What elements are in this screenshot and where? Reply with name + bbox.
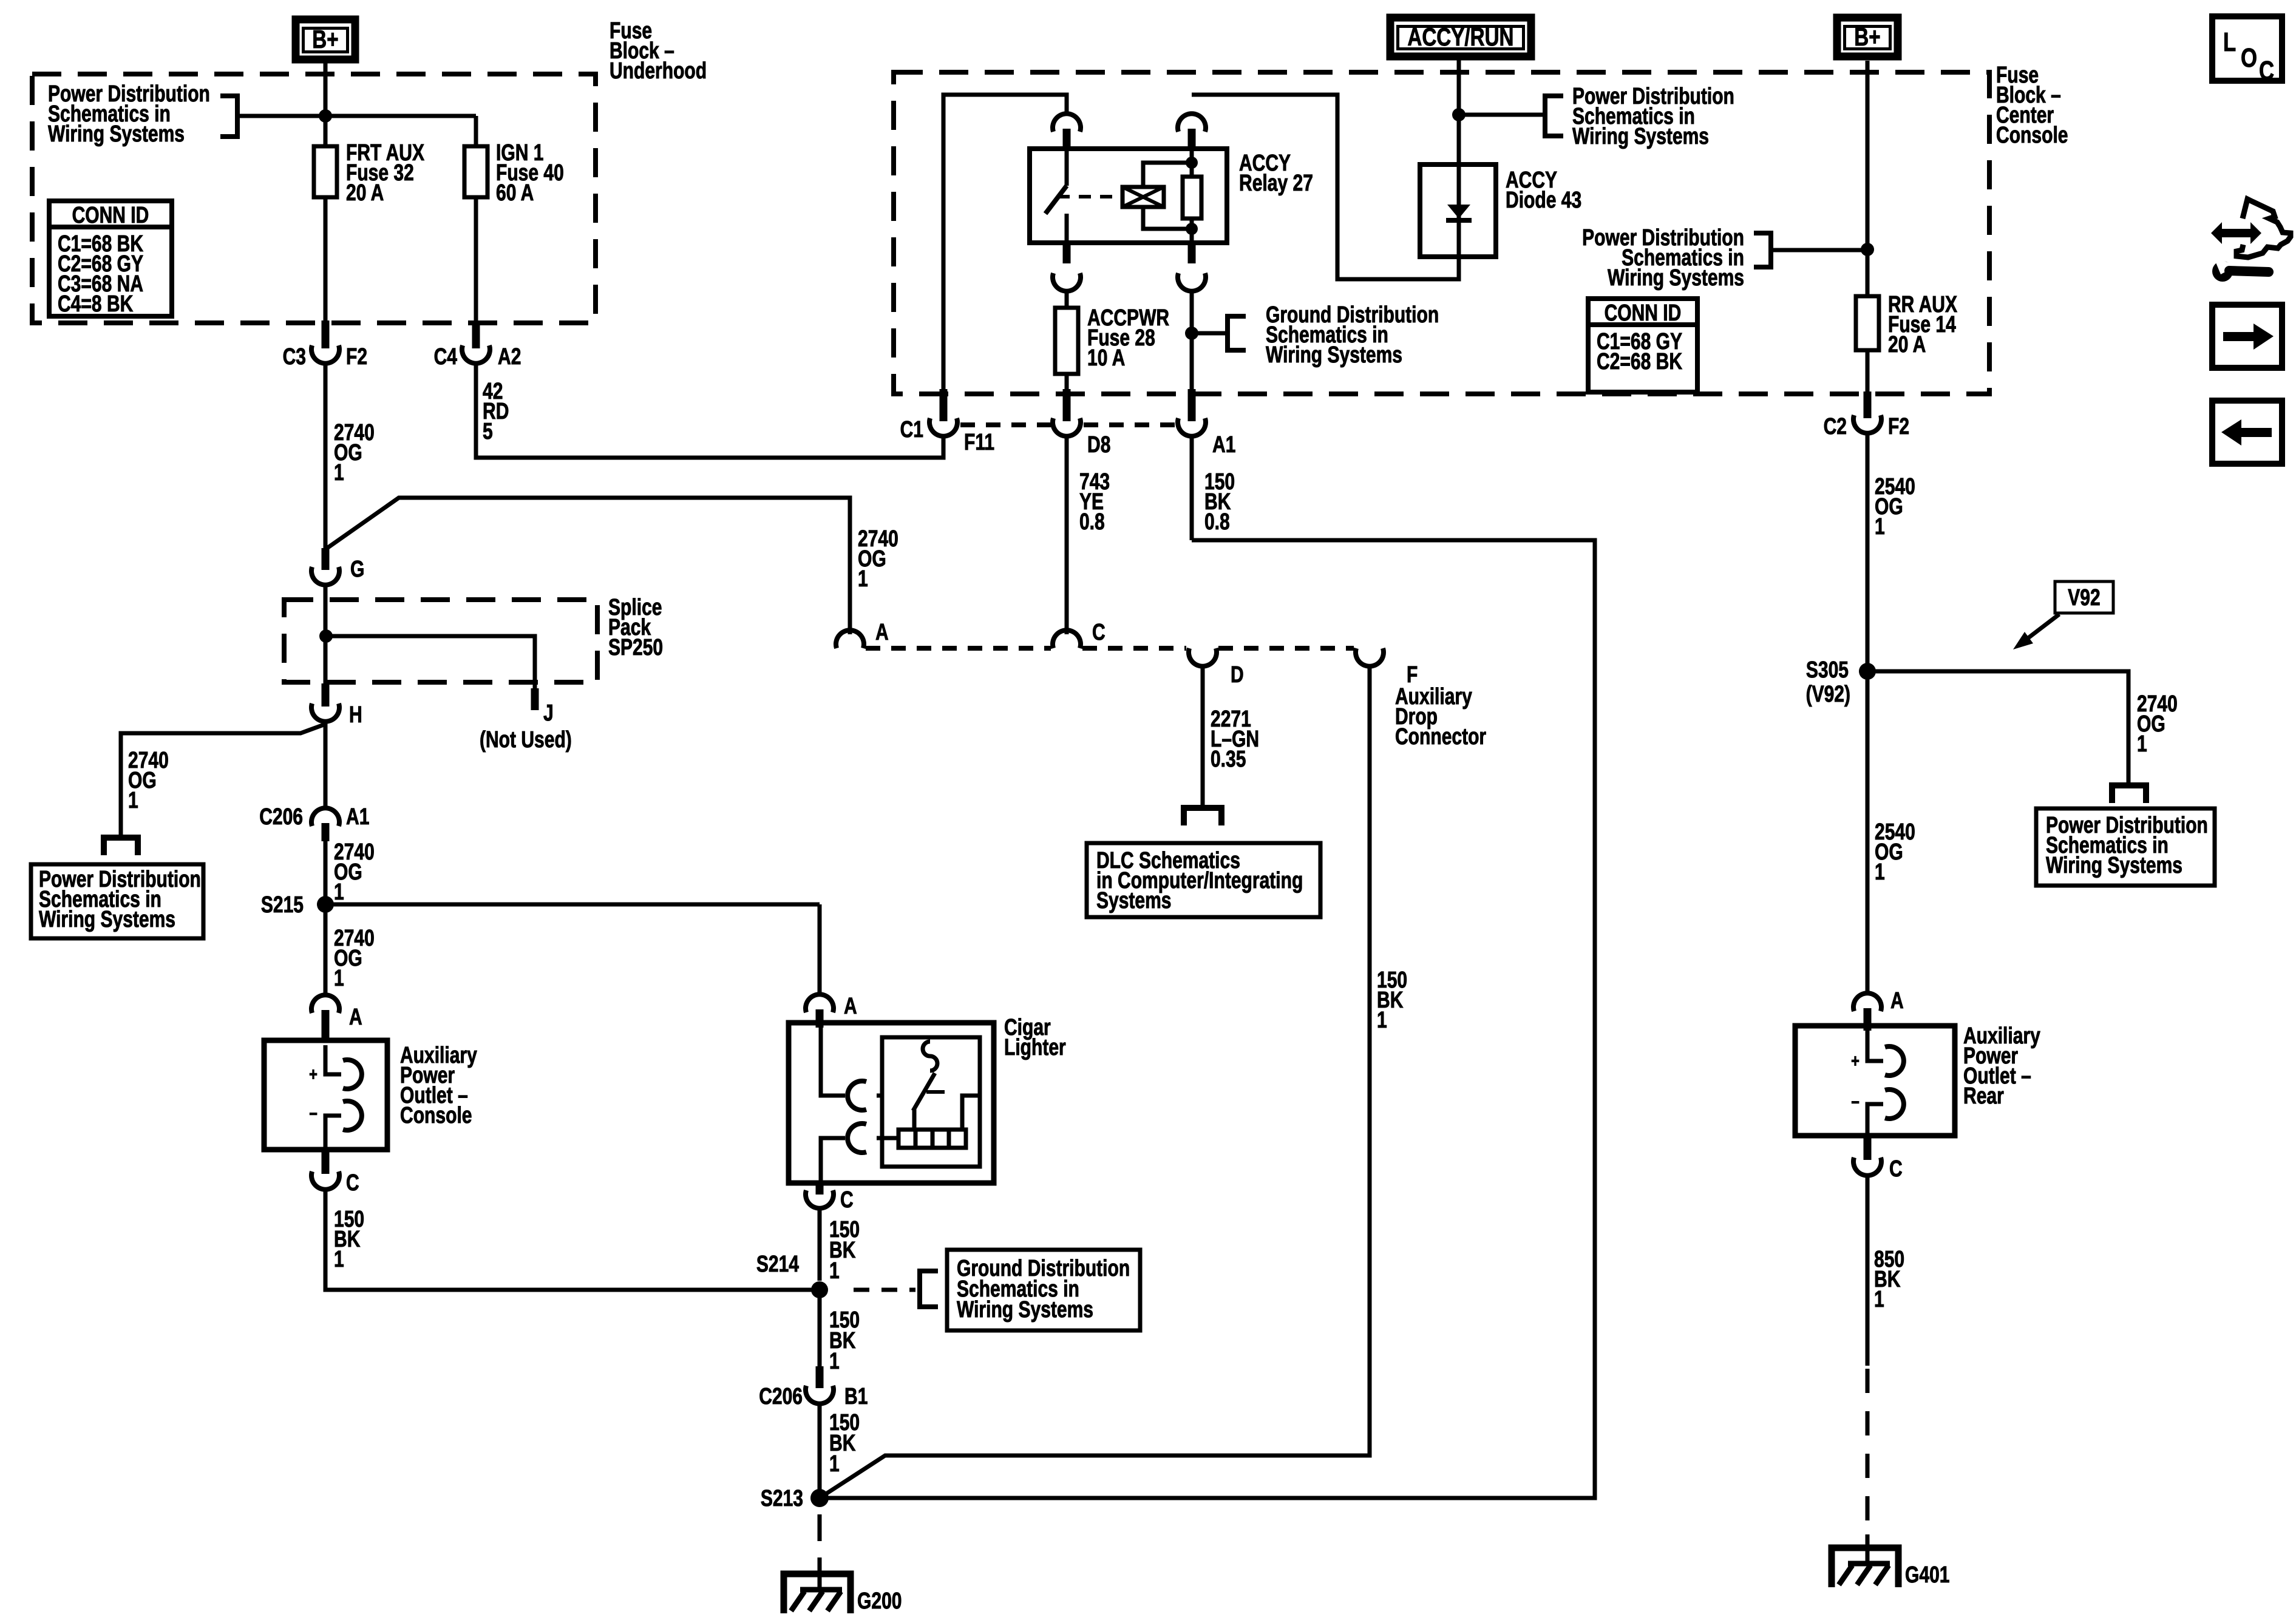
svg-text:C: C <box>1092 620 1106 645</box>
svg-text:C1: C1 <box>900 417 923 442</box>
svg-text:Connector: Connector <box>1395 724 1486 750</box>
svg-text:1: 1 <box>1377 1008 1387 1033</box>
svg-text:1: 1 <box>334 966 344 991</box>
svg-text:ACCY/RUN: ACCY/RUN <box>1407 22 1513 51</box>
svg-text:S214: S214 <box>756 1252 799 1277</box>
svg-text:1: 1 <box>2137 731 2147 757</box>
svg-text:1: 1 <box>128 788 138 813</box>
svg-text:Console: Console <box>400 1103 472 1128</box>
svg-text:B+: B+ <box>312 25 338 53</box>
svg-text:1: 1 <box>334 460 344 486</box>
svg-text:Relay 27: Relay 27 <box>1239 171 1313 196</box>
svg-text:A: A <box>349 1005 362 1030</box>
svg-text:C2: C2 <box>1824 414 1847 439</box>
svg-text:5: 5 <box>483 419 493 444</box>
svg-text:G: G <box>350 557 364 582</box>
svg-text:Rear: Rear <box>1963 1083 2004 1109</box>
svg-text:H: H <box>349 702 362 728</box>
svg-text:0.8: 0.8 <box>1204 509 1230 535</box>
svg-text:20 A: 20 A <box>1888 332 1926 358</box>
svg-text:−: − <box>1851 1093 1860 1113</box>
svg-text:0.35: 0.35 <box>1211 747 1246 772</box>
svg-text:S213: S213 <box>761 1486 803 1511</box>
svg-text:Wiring Systems: Wiring Systems <box>39 907 175 932</box>
svg-text:G200: G200 <box>857 1588 902 1614</box>
svg-text:C: C <box>1889 1156 1903 1182</box>
svg-text:A: A <box>1890 988 1904 1014</box>
svg-text:A: A <box>844 994 857 1019</box>
svg-text:1: 1 <box>858 566 868 592</box>
svg-text:C4: C4 <box>434 344 457 370</box>
svg-text:S305: S305 <box>1806 657 1849 683</box>
svg-text:1: 1 <box>829 1258 840 1284</box>
svg-text:B1: B1 <box>844 1384 868 1409</box>
svg-text:C: C <box>346 1170 359 1196</box>
svg-text:V92: V92 <box>2068 585 2100 611</box>
svg-text:C206: C206 <box>759 1384 803 1409</box>
svg-text:1: 1 <box>829 1349 840 1374</box>
svg-text:Wiring Systems: Wiring Systems <box>1572 124 1709 149</box>
svg-text:1: 1 <box>1874 1287 1884 1312</box>
svg-text:0.8: 0.8 <box>1079 509 1105 535</box>
svg-text:C4=8 BK: C4=8 BK <box>58 291 134 317</box>
svg-text:1: 1 <box>334 1247 344 1272</box>
svg-text:Wiring Systems: Wiring Systems <box>2046 853 2182 878</box>
svg-text:CONN ID: CONN ID <box>72 203 149 228</box>
svg-text:Lighter: Lighter <box>1004 1035 1066 1060</box>
svg-text:Underhood: Underhood <box>610 58 707 84</box>
svg-text:1: 1 <box>334 879 344 905</box>
svg-text:60 A: 60 A <box>496 180 534 206</box>
svg-text:A2: A2 <box>498 344 521 370</box>
svg-text:Wiring Systems: Wiring Systems <box>1608 265 1744 291</box>
svg-text:C206: C206 <box>259 804 303 830</box>
svg-text:10 A: 10 A <box>1087 345 1125 371</box>
svg-text:1: 1 <box>1875 514 1885 540</box>
svg-text:C: C <box>2259 56 2274 86</box>
svg-text:20 A: 20 A <box>346 180 384 206</box>
svg-text:C3: C3 <box>283 344 306 370</box>
svg-text:J: J <box>543 700 554 726</box>
svg-text:L: L <box>2223 27 2236 57</box>
svg-text:1: 1 <box>829 1451 840 1477</box>
svg-text:SP250: SP250 <box>608 635 663 660</box>
svg-text:A1: A1 <box>1212 432 1235 458</box>
svg-text:B+: B+ <box>1854 22 1880 51</box>
svg-text:A: A <box>875 620 889 645</box>
svg-text:(Not Used): (Not Used) <box>480 727 572 753</box>
svg-text:(V92): (V92) <box>1806 682 1850 707</box>
svg-text:F2: F2 <box>1888 414 1909 439</box>
svg-text:D: D <box>1231 662 1244 688</box>
svg-text:−: − <box>309 1104 318 1124</box>
svg-text:1: 1 <box>1875 859 1885 885</box>
svg-text:Wiring Systems: Wiring Systems <box>1266 342 1402 368</box>
svg-text:C: C <box>840 1187 854 1213</box>
svg-text:Console: Console <box>1996 123 2068 148</box>
svg-text:CONN ID: CONN ID <box>1605 300 1682 326</box>
svg-text:Wiring Systems: Wiring Systems <box>48 121 185 147</box>
svg-text:Systems: Systems <box>1096 888 1172 913</box>
svg-text:Diode 43: Diode 43 <box>1506 188 1581 213</box>
svg-text:S215: S215 <box>261 892 304 918</box>
svg-text:+: + <box>309 1065 318 1085</box>
svg-text:F11: F11 <box>964 430 994 455</box>
svg-text:G401: G401 <box>1905 1562 1950 1588</box>
svg-text:+: + <box>1851 1051 1860 1071</box>
svg-text:O: O <box>2241 43 2257 73</box>
svg-text:C2=68 BK: C2=68 BK <box>1597 349 1682 374</box>
svg-text:F2: F2 <box>346 344 367 370</box>
svg-text:A1: A1 <box>346 804 369 830</box>
svg-text:D8: D8 <box>1087 432 1110 458</box>
svg-text:Wiring Systems: Wiring Systems <box>957 1297 1093 1323</box>
